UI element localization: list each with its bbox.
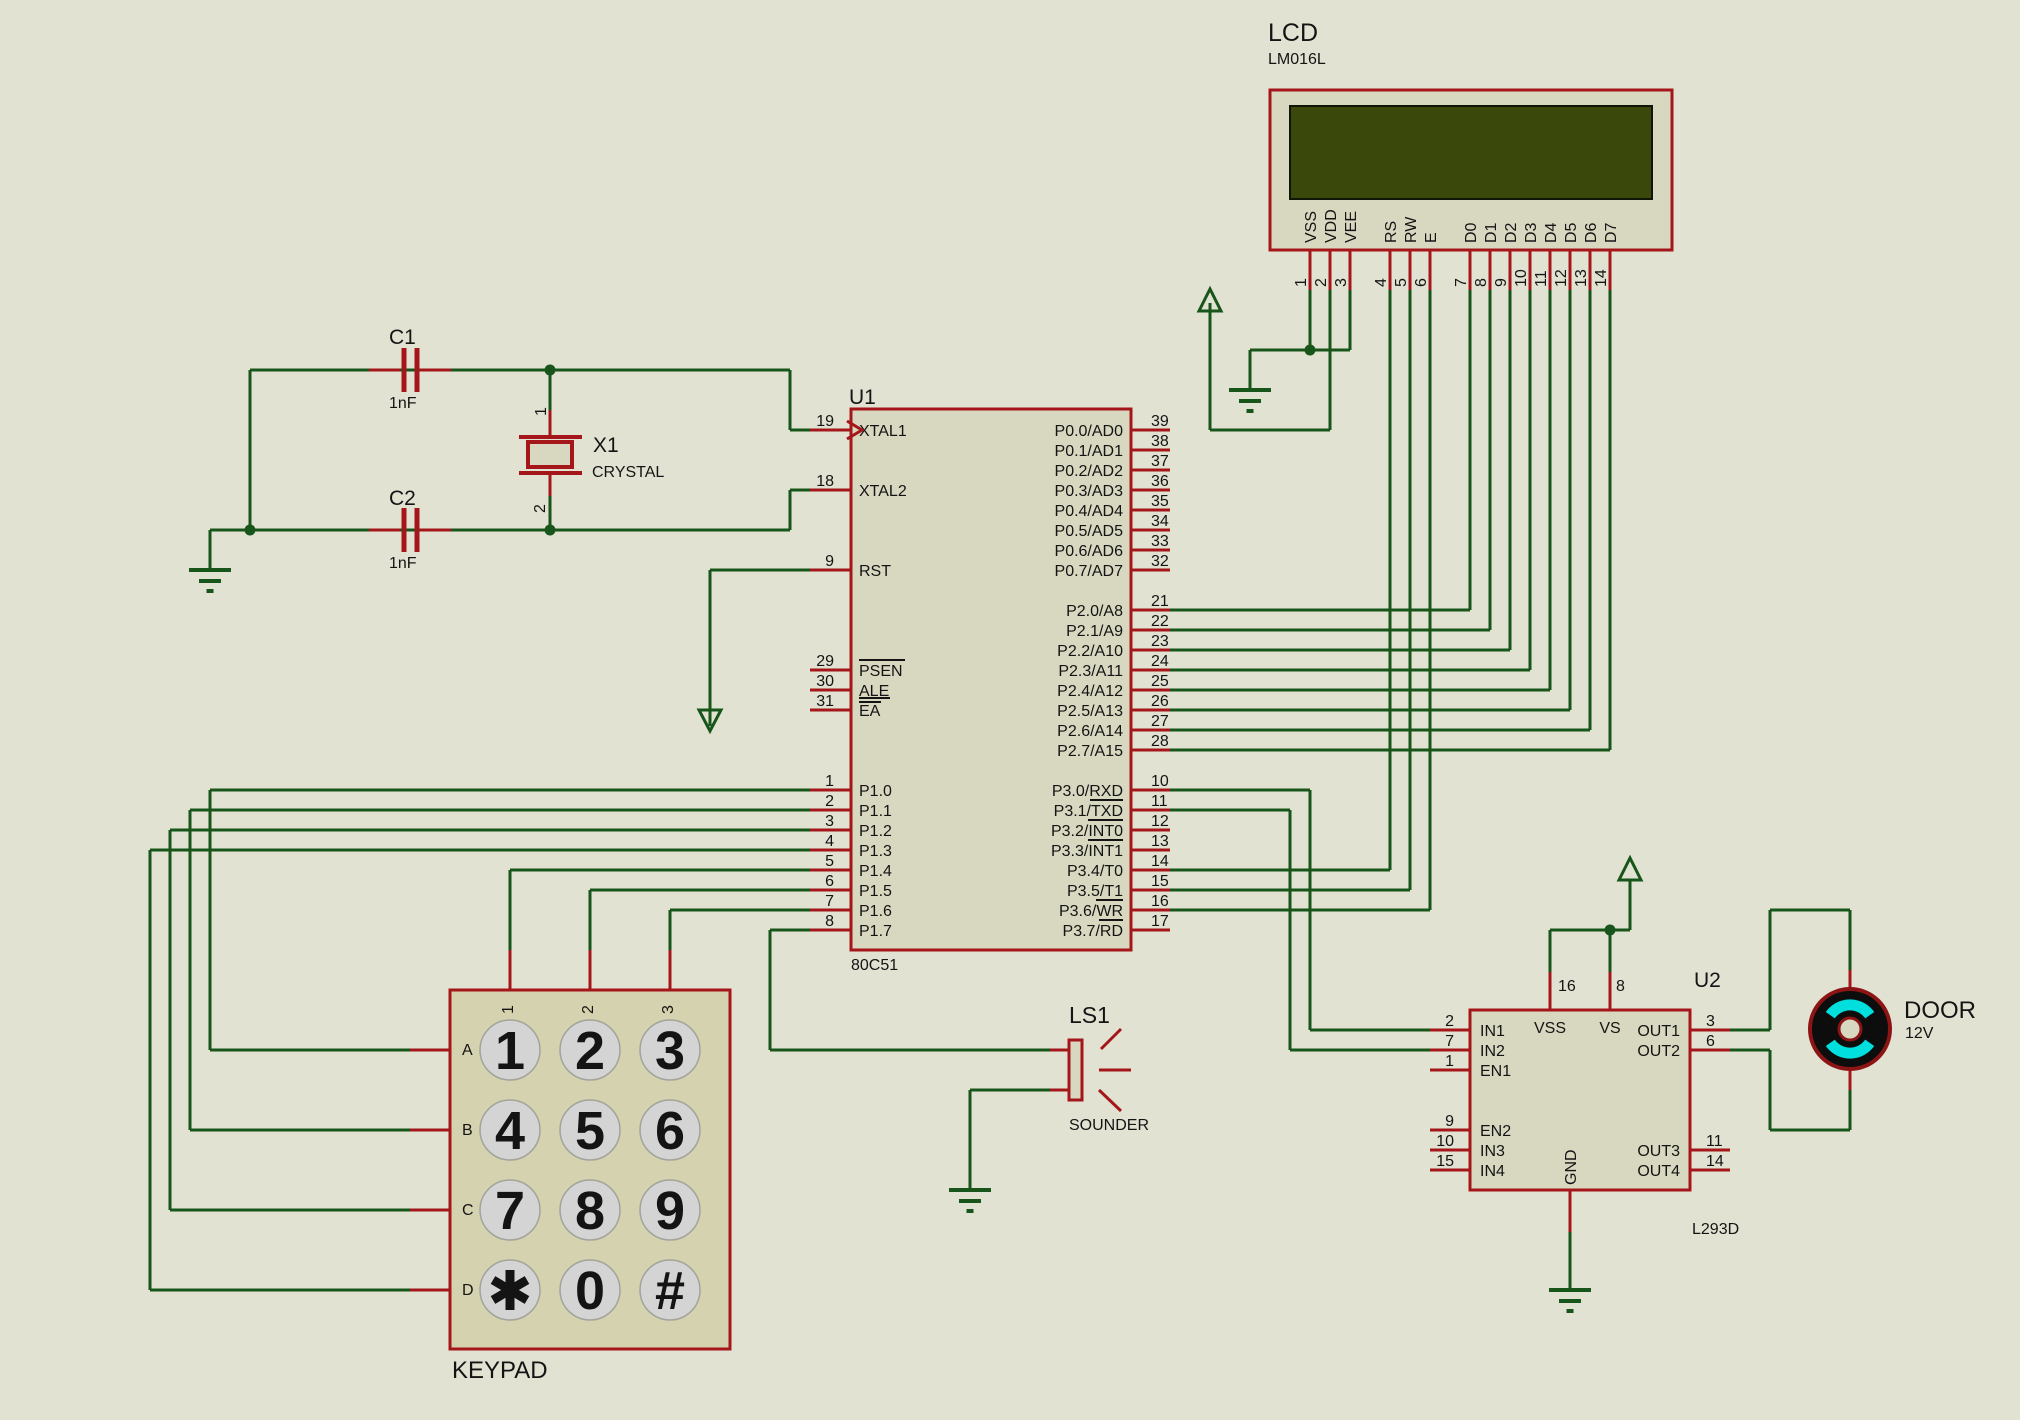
svg-text:B: B <box>462 1122 473 1139</box>
U1 pin 22 P2.1/A9 <box>1066 613 1170 640</box>
wire P1.2 to keypad row C <box>170 830 812 1210</box>
U2 pin 7 IN2 <box>1430 1033 1505 1060</box>
U1 pin 33 P0.6/AD6 <box>1055 533 1170 560</box>
U1 pin 2 P1.1 <box>810 793 892 820</box>
svg-text:1: 1 <box>533 407 550 416</box>
crystal X1 <box>519 410 582 496</box>
svg-text:D0: D0 <box>1463 222 1480 243</box>
svg-text:P0.2/AD2: P0.2/AD2 <box>1055 463 1124 480</box>
svg-text:P3.6/WR: P3.6/WR <box>1059 903 1123 920</box>
ground symbol U2 <box>1549 1290 1591 1311</box>
svg-text:6: 6 <box>655 1101 685 1161</box>
svg-text:12V: 12V <box>1905 1025 1934 1042</box>
wire D7 to P2.7 <box>1170 290 1610 750</box>
keypad row pin A <box>410 1042 473 1059</box>
wire D3 to P2.3 <box>1170 290 1530 670</box>
U2 pin 10 IN3 <box>1430 1133 1505 1160</box>
svg-text:7: 7 <box>825 893 834 910</box>
wire P1.5 to keypad col 2 <box>590 890 812 950</box>
keypad body <box>450 990 730 1349</box>
svg-text:L293D: L293D <box>1692 1221 1739 1238</box>
svg-text:2: 2 <box>825 793 834 810</box>
svg-text:5: 5 <box>1393 278 1410 287</box>
U1 pin 26 P2.5/A13 <box>1057 693 1170 720</box>
svg-text:P0.6/AD6: P0.6/AD6 <box>1055 543 1124 560</box>
U1 pin 12 P3.2/INT0 <box>1051 813 1170 840</box>
svg-text:D7: D7 <box>1603 222 1620 243</box>
svg-text:27: 27 <box>1151 713 1169 730</box>
wire U2 GND to ground <box>1569 1230 1572 1290</box>
svg-text:35: 35 <box>1151 493 1169 510</box>
svg-text:XTAL1: XTAL1 <box>859 423 907 440</box>
svg-text:IN3: IN3 <box>1480 1143 1505 1160</box>
U1 pin 24 P2.3/A11 <box>1058 653 1170 680</box>
U2 pin 2 IN1 <box>1430 1013 1505 1040</box>
svg-text:3: 3 <box>825 813 834 830</box>
svg-text:16: 16 <box>1151 893 1169 910</box>
ground symbol sounder <box>949 1190 991 1211</box>
svg-text:P1.3: P1.3 <box>859 843 892 860</box>
LCD pin 8 D1 <box>1473 222 1500 290</box>
svg-text:2: 2 <box>1445 1013 1454 1030</box>
U2 pin 3 OUT1 <box>1637 1013 1730 1040</box>
power arrow LCD VDD <box>1199 289 1221 311</box>
node junction left rail <box>245 525 256 536</box>
svg-text:14: 14 <box>1151 853 1169 870</box>
svg-text:8: 8 <box>825 913 834 930</box>
svg-text:P3.0/RXD: P3.0/RXD <box>1052 783 1123 800</box>
svg-text:7: 7 <box>1453 278 1470 287</box>
U1 pin 14 P3.4/T0 <box>1067 853 1170 880</box>
svg-text:21: 21 <box>1151 593 1169 610</box>
LCD display body <box>1270 90 1672 250</box>
U1 pin 7 P1.6 <box>810 893 892 920</box>
svg-text:11: 11 <box>1533 270 1550 287</box>
wire X1 pin1 <box>549 370 552 410</box>
svg-text:PSEN: PSEN <box>859 663 903 680</box>
C2 value 1nF <box>389 555 417 572</box>
LS1 reference label <box>1069 1002 1110 1028</box>
LCD pin 13 D6 <box>1573 222 1600 290</box>
svg-text:OUT1: OUT1 <box>1637 1023 1680 1040</box>
svg-text:P1.7: P1.7 <box>859 923 892 940</box>
svg-text:P2.3/A11: P2.3/A11 <box>1058 663 1123 680</box>
svg-text:VEE: VEE <box>1343 211 1360 243</box>
svg-text:P1.2: P1.2 <box>859 823 892 840</box>
svg-text:15: 15 <box>1151 873 1169 890</box>
svg-text:P0.1/AD1: P0.1/AD1 <box>1055 443 1124 460</box>
svg-text:8: 8 <box>1616 978 1625 995</box>
U1 pin 6 P1.5 <box>810 873 892 900</box>
wire C2 rail to ground <box>209 530 212 570</box>
capacitor C1 <box>369 348 451 392</box>
wire P3.1 to U2 IN2 <box>1170 810 1430 1050</box>
U1 pin 16 P3.6/WR <box>1059 893 1170 920</box>
wire D6 to P2.6 <box>1170 290 1590 730</box>
motor DOOR <box>1810 970 1890 1090</box>
svg-text:23: 23 <box>1151 633 1169 650</box>
C1 value 1nF <box>389 395 417 412</box>
svg-text:CRYSTAL: CRYSTAL <box>592 464 664 481</box>
svg-text:5: 5 <box>825 853 834 870</box>
svg-text:VSS: VSS <box>1534 1020 1566 1037</box>
ground arrow RST <box>699 710 721 731</box>
U1 pin 9 RST <box>810 553 891 580</box>
svg-text:P0.7/AD7: P0.7/AD7 <box>1055 563 1124 580</box>
svg-text:26: 26 <box>1151 693 1169 710</box>
keypad button 5 <box>560 1100 620 1161</box>
ground symbol LCD <box>1229 390 1271 411</box>
LCD screen <box>1290 106 1652 199</box>
svg-text:IN1: IN1 <box>1480 1023 1505 1040</box>
LCD pin 5 RW <box>1393 216 1420 290</box>
svg-text:1nF: 1nF <box>389 395 417 412</box>
U1 pin 37 P0.2/AD2 <box>1055 453 1170 480</box>
svg-text:OUT3: OUT3 <box>1637 1143 1680 1160</box>
svg-text:D3: D3 <box>1523 222 1540 243</box>
U2 pin 8 VS <box>1599 972 1625 1037</box>
microcontroller U1 <box>851 409 1131 950</box>
wire P1.0 to keypad row A <box>210 790 812 1050</box>
U1 value 80C51 <box>851 957 898 974</box>
U1 pin 29 PSEN <box>810 653 905 680</box>
wire D5 to P2.5 <box>1170 290 1570 710</box>
svg-text:XTAL2: XTAL2 <box>859 483 907 500</box>
svg-text:D1: D1 <box>1483 222 1500 243</box>
U1 pin 17 P3.7/RD <box>1063 913 1170 940</box>
svg-text:LS1: LS1 <box>1069 1002 1110 1028</box>
svg-text:28: 28 <box>1151 733 1169 750</box>
U1 pin 36 P0.3/AD3 <box>1055 473 1170 500</box>
U2 reference label <box>1694 969 1721 992</box>
LCD pin 9 D2 <box>1493 222 1520 290</box>
U1 pin 4 P1.3 <box>810 833 892 860</box>
svg-text:9: 9 <box>655 1181 685 1241</box>
svg-text:P0.5/AD5: P0.5/AD5 <box>1055 523 1124 540</box>
svg-text:P2.7/A15: P2.7/A15 <box>1057 743 1123 760</box>
svg-text:0: 0 <box>575 1261 605 1321</box>
svg-text:EN2: EN2 <box>1480 1123 1511 1140</box>
svg-text:1: 1 <box>1445 1053 1454 1070</box>
svg-text:4: 4 <box>825 833 834 850</box>
svg-text:9: 9 <box>1493 278 1510 287</box>
U1 pin 39 P0.0/AD0 <box>1055 413 1170 440</box>
U1 pin 34 P0.5/AD5 <box>1055 513 1170 540</box>
U1 pin 8 P1.7 <box>810 913 892 940</box>
svg-text:U2: U2 <box>1694 969 1721 992</box>
wire P3.0 to U2 IN1 <box>1170 790 1430 1030</box>
LCD pin 10 D3 <box>1513 222 1540 290</box>
LCD pin 4 RS <box>1373 221 1400 290</box>
keypad row pin C <box>410 1202 474 1219</box>
U1 reference label <box>849 386 876 409</box>
svg-text:12: 12 <box>1151 813 1169 830</box>
svg-text:SOUNDER: SOUNDER <box>1069 1117 1149 1134</box>
svg-text:P0.0/AD0: P0.0/AD0 <box>1055 423 1124 440</box>
keypad column pin 2 <box>580 950 597 1014</box>
LCD pin 1 VSS <box>1293 211 1320 290</box>
svg-text:A: A <box>462 1042 473 1059</box>
svg-text:P2.0/A8: P2.0/A8 <box>1066 603 1123 620</box>
svg-text:RST: RST <box>859 563 891 580</box>
svg-text:13: 13 <box>1573 269 1590 287</box>
U1 pin 21 P2.0/A8 <box>1066 593 1170 620</box>
svg-text:39: 39 <box>1151 413 1169 430</box>
ground symbol left <box>189 570 231 591</box>
U2 pin 11 OUT3 <box>1637 1133 1730 1160</box>
svg-text:12: 12 <box>1553 269 1570 287</box>
LS1 value SOUNDER <box>1069 1117 1149 1134</box>
svg-text:P3.2/INT0: P3.2/INT0 <box>1051 823 1123 840</box>
wire OUT1 to motor top <box>1730 910 1850 1030</box>
svg-text:P3.3/INT1: P3.3/INT1 <box>1051 843 1123 860</box>
svg-text:36: 36 <box>1151 473 1169 490</box>
svg-text:3: 3 <box>1333 278 1350 287</box>
LCD pin 6 E <box>1413 232 1440 290</box>
sounder LS1 body <box>1050 1029 1131 1111</box>
svg-text:OUT2: OUT2 <box>1637 1043 1680 1060</box>
wire D2 to P2.2 <box>1170 290 1510 650</box>
svg-text:11: 11 <box>1151 793 1168 810</box>
svg-text:DOOR: DOOR <box>1904 997 1976 1024</box>
capacitor C2 <box>369 508 451 552</box>
U2 pin 9 EN2 <box>1430 1113 1511 1140</box>
svg-text:P2.6/A14: P2.6/A14 <box>1057 723 1123 740</box>
svg-text:4: 4 <box>495 1101 525 1161</box>
svg-text:#: # <box>655 1261 685 1321</box>
svg-text:6: 6 <box>825 873 834 890</box>
C2 reference label <box>389 487 416 510</box>
svg-text:8: 8 <box>1473 278 1490 287</box>
wire RS to P3.4 <box>1170 290 1390 870</box>
svg-text:19: 19 <box>816 413 834 430</box>
node junction X1 pin2 on bottom rail <box>545 525 556 536</box>
svg-text:8: 8 <box>575 1181 605 1241</box>
node junction X1 pin1 on top rail <box>545 365 556 376</box>
U1 pin 31 EA <box>810 693 881 720</box>
svg-text:17: 17 <box>1151 913 1169 930</box>
svg-text:33: 33 <box>1151 533 1169 550</box>
svg-text:P1.4: P1.4 <box>859 863 892 880</box>
svg-text:16: 16 <box>1558 978 1576 995</box>
keypad row pin D <box>410 1282 474 1299</box>
U1 pin 3 P1.2 <box>810 813 892 840</box>
svg-text:2: 2 <box>575 1021 605 1081</box>
LCD value LM016L <box>1268 51 1326 68</box>
svg-text:10: 10 <box>1151 773 1169 790</box>
svg-text:3: 3 <box>655 1021 685 1081</box>
X1 reference label <box>593 434 619 457</box>
svg-text:1: 1 <box>500 1005 517 1014</box>
U2 pin 1 EN1 <box>1430 1053 1511 1080</box>
svg-text:22: 22 <box>1151 613 1169 630</box>
svg-text:2: 2 <box>532 504 549 513</box>
wire left vertical C1-C2 <box>249 370 252 530</box>
wire OUT2 to motor bottom <box>1730 1050 1850 1130</box>
svg-text:1: 1 <box>825 773 834 790</box>
U2 pin GND <box>1563 1149 1580 1232</box>
svg-text:C1: C1 <box>389 326 416 349</box>
DOOR reference label <box>1904 997 1976 1024</box>
keypad reference label KEYPAD <box>452 1357 548 1384</box>
U1 pin 15 P3.5/T1 <box>1067 873 1170 900</box>
svg-text:38: 38 <box>1151 433 1169 450</box>
svg-text:14: 14 <box>1706 1153 1724 1170</box>
keypad column pin 1 <box>500 950 517 1014</box>
svg-text:P3.1/TXD: P3.1/TXD <box>1054 803 1123 820</box>
svg-text:10: 10 <box>1513 269 1530 287</box>
wire E to P3.6 <box>1170 290 1430 910</box>
LCD reference label <box>1268 19 1318 47</box>
wire D1 to P2.1 <box>1170 290 1490 630</box>
svg-text:1nF: 1nF <box>389 555 417 572</box>
svg-text:RW: RW <box>1403 216 1420 243</box>
LCD pin 14 D7 <box>1593 222 1620 290</box>
svg-text:18: 18 <box>816 473 834 490</box>
wire LCD VDD to power <box>1210 290 1330 430</box>
svg-text:25: 25 <box>1151 673 1169 690</box>
keypad button 8 <box>560 1180 620 1241</box>
U1 pin 1 P1.0 <box>810 773 892 800</box>
svg-text:13: 13 <box>1151 833 1169 850</box>
X1 pin 2 number <box>532 504 549 513</box>
wire LCD VSS-VEE to ground <box>1250 290 1350 390</box>
svg-text:1: 1 <box>1293 278 1310 287</box>
node junction U2 VS <box>1605 925 1616 936</box>
svg-text:U1: U1 <box>849 386 876 409</box>
svg-text:P3.5/T1: P3.5/T1 <box>1067 883 1123 900</box>
U1 pin 35 P0.4/AD4 <box>1055 493 1170 520</box>
keypad button 2 <box>560 1020 620 1081</box>
svg-text:X1: X1 <box>593 434 619 457</box>
wire P1.6 to keypad col 3 <box>670 910 812 950</box>
U1 pin 10 P3.0/RXD <box>1052 773 1170 800</box>
svg-text:P1.1: P1.1 <box>859 803 892 820</box>
wire sounder to ground <box>970 1090 1050 1190</box>
U1 pin 19 XTAL1 <box>810 413 907 440</box>
U1 pin 5 P1.4 <box>810 853 892 880</box>
svg-text:IN4: IN4 <box>1480 1163 1505 1180</box>
wire bottom rail C2 to XTAL2 <box>210 490 812 530</box>
wire RW to P3.5 <box>1170 290 1410 890</box>
svg-text:29: 29 <box>816 653 834 670</box>
U1 pin 23 P2.2/A10 <box>1057 633 1170 660</box>
svg-text:9: 9 <box>825 553 834 570</box>
U2 pin 16 VSS <box>1534 972 1576 1037</box>
svg-text:32: 32 <box>1151 553 1169 570</box>
wire P1.3 to keypad row D <box>150 850 812 1290</box>
svg-text:24: 24 <box>1151 653 1169 670</box>
wire P1.1 to keypad row B <box>190 810 812 1130</box>
svg-text:D2: D2 <box>1503 222 1520 243</box>
U2 pin 14 OUT4 <box>1637 1153 1730 1180</box>
wire D4 to P2.4 <box>1170 290 1550 690</box>
C1 reference label <box>389 326 416 349</box>
power arrow U2 <box>1619 858 1641 880</box>
LCD pin 2 VDD <box>1313 209 1340 290</box>
svg-text:D: D <box>462 1282 474 1299</box>
svg-text:3: 3 <box>660 1005 677 1014</box>
svg-text:P0.3/AD3: P0.3/AD3 <box>1055 483 1124 500</box>
U2 value L293D <box>1692 1221 1739 1238</box>
svg-text:2: 2 <box>580 1005 597 1014</box>
U1 pin 38 P0.1/AD1 <box>1055 433 1170 460</box>
svg-text:7: 7 <box>1445 1033 1454 1050</box>
svg-text:RS: RS <box>1383 221 1400 243</box>
wire U2 VSS-VS to power <box>1550 880 1630 972</box>
keypad button 4 <box>480 1100 540 1161</box>
U2 pin 15 IN4 <box>1430 1153 1505 1180</box>
wire RST net <box>710 570 812 726</box>
wire P1.4 to keypad col 1 <box>510 870 812 950</box>
svg-text:VSS: VSS <box>1303 211 1320 243</box>
svg-text:GND: GND <box>1563 1149 1580 1185</box>
svg-text:5: 5 <box>575 1101 605 1161</box>
svg-text:IN2: IN2 <box>1480 1043 1505 1060</box>
svg-text:10: 10 <box>1436 1133 1454 1150</box>
svg-text:6: 6 <box>1706 1033 1715 1050</box>
LCD pin 3 VEE <box>1333 211 1360 290</box>
svg-text:80C51: 80C51 <box>851 957 898 974</box>
X1 value CRYSTAL <box>592 464 664 481</box>
svg-text:LCD: LCD <box>1268 19 1318 47</box>
svg-text:EN1: EN1 <box>1480 1063 1511 1080</box>
U2 pin 6 OUT2 <box>1637 1033 1730 1060</box>
U1 pin 28 P2.7/A15 <box>1057 733 1170 760</box>
svg-text:37: 37 <box>1151 453 1169 470</box>
svg-text:P3.4/T0: P3.4/T0 <box>1067 863 1123 880</box>
svg-text:4: 4 <box>1373 278 1390 287</box>
svg-text:34: 34 <box>1151 513 1169 530</box>
keypad button * <box>480 1260 540 1320</box>
svg-text:2: 2 <box>1313 278 1330 287</box>
svg-text:C: C <box>462 1202 474 1219</box>
svg-text:LM016L: LM016L <box>1268 51 1326 68</box>
svg-text:7: 7 <box>495 1181 525 1241</box>
keypad button 1 <box>480 1020 540 1081</box>
svg-text:D5: D5 <box>1563 222 1580 243</box>
wire D0 to P2.0 <box>1170 290 1470 610</box>
svg-text:OUT4: OUT4 <box>1637 1163 1680 1180</box>
motor driver U2 <box>1470 1010 1690 1190</box>
keypad button 9 <box>640 1180 700 1241</box>
svg-text:6: 6 <box>1413 278 1430 287</box>
node junction LCD VSS <box>1305 345 1316 356</box>
svg-text:D4: D4 <box>1543 222 1560 243</box>
svg-text:VDD: VDD <box>1323 209 1340 243</box>
svg-text:14: 14 <box>1593 269 1610 287</box>
wire P1.7 to sounder <box>770 930 1050 1050</box>
svg-text:P2.1/A9: P2.1/A9 <box>1066 623 1123 640</box>
U1 pin 30 ALE <box>810 673 890 700</box>
svg-text:30: 30 <box>816 673 834 690</box>
LCD pin 12 D5 <box>1553 222 1580 290</box>
svg-text:P2.5/A13: P2.5/A13 <box>1057 703 1123 720</box>
svg-text:P1.5: P1.5 <box>859 883 892 900</box>
svg-text:1: 1 <box>495 1021 525 1081</box>
svg-text:P3.7/RD: P3.7/RD <box>1063 923 1123 940</box>
svg-text:P0.4/AD4: P0.4/AD4 <box>1055 503 1124 520</box>
svg-text:VS: VS <box>1599 1020 1620 1037</box>
U1 pin 11 P3.1/TXD <box>1054 793 1170 820</box>
svg-text:C2: C2 <box>389 487 416 510</box>
keypad column pin 3 <box>660 950 677 1014</box>
svg-text:KEYPAD: KEYPAD <box>452 1357 548 1384</box>
keypad button 0 <box>560 1260 620 1321</box>
keypad row pin B <box>410 1122 473 1139</box>
svg-text:P1.6: P1.6 <box>859 903 892 920</box>
U1 pin 25 P2.4/A12 <box>1057 673 1170 700</box>
